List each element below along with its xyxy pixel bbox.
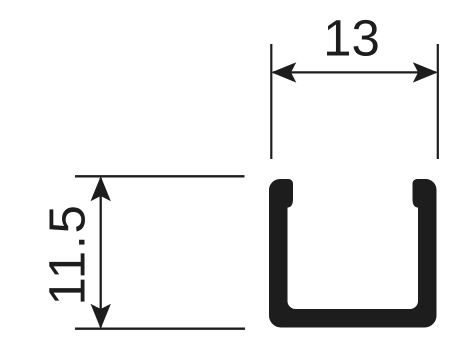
arrowhead right (413, 62, 438, 82)
height dimension arrow line (100, 178, 102, 327)
arrowhead down (91, 304, 111, 329)
extension line left (width dim) (270, 44, 272, 159)
extension line right (width dim) (437, 44, 439, 159)
extension line bottom (height dim) (75, 328, 245, 330)
svg-text:13: 13 (323, 10, 380, 67)
svg-text:11.5: 11.5 (39, 204, 96, 306)
width dimension arrow line (273, 71, 436, 73)
U-channel profile cross-section (269, 179, 437, 328)
arrowhead left (271, 62, 296, 82)
extension line top (height dim) (75, 175, 245, 177)
arrowhead up (91, 176, 111, 201)
